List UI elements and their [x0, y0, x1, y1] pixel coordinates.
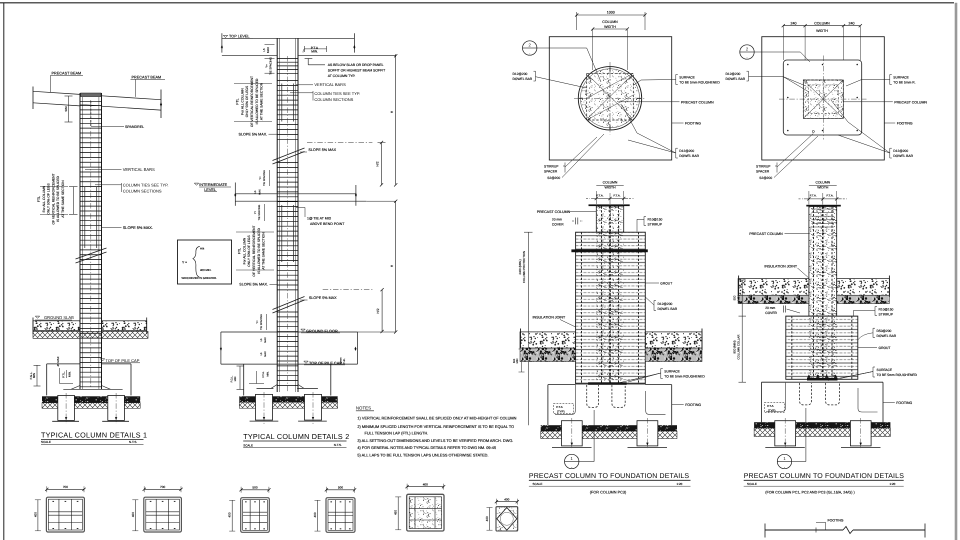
svg-text:ONLY 50% OF LEGS: ONLY 50% OF LEGS	[47, 183, 51, 215]
svg-text:DOWEL BAR: DOWEL BAR	[513, 77, 533, 81]
detail 1: pile cap outline	[47, 363, 80, 365]
detail 2: column centerline	[287, 56, 289, 392]
detail 3 elev: sub-base mesh strip	[541, 431, 677, 438]
svg-text:20 mm: 20 mm	[765, 306, 775, 310]
svg-text:MIN: MIN	[516, 359, 519, 364]
svg-text:20 mm: 20 mm	[552, 218, 562, 222]
svg-text:Y=: Y=	[256, 320, 259, 324]
svg-text:D12@200: D12@200	[679, 149, 694, 153]
detail 1: ground slab speckled band	[33, 321, 80, 331]
svg-text:F.T.A.: F.T.A.	[262, 371, 265, 378]
svg-text:WIDTH: WIDTH	[816, 29, 828, 33]
detail 4 elev: top plate	[806, 205, 841, 207]
border left line	[3, 3, 5, 540]
svg-text:THK.: THK.	[343, 358, 346, 364]
detail 3 plan: dashed column square	[587, 73, 634, 120]
svg-text:SURFACE: SURFACE	[877, 368, 893, 372]
svg-text:COLUMN: COLUMN	[815, 181, 830, 185]
svg-text:TIE SPACING: TIE SPACING	[263, 170, 266, 186]
svg-text:PRECAST COLUMN: PRECAST COLUMN	[537, 210, 571, 214]
detail 4 elev: pedestal center stipple	[809, 316, 837, 379]
svg-text:Y=: Y=	[259, 176, 262, 180]
svg-text:SLOPE 5% MAX: SLOPE 5% MAX	[308, 148, 336, 152]
detail 3 elev: pedestal bottom line	[576, 383, 646, 385]
svg-text:FTL: FTL	[37, 196, 41, 202]
svg-text:COLUMN SECTIONS: COLUMN SECTIONS	[123, 188, 162, 193]
svg-text:R10@150: R10@150	[879, 308, 894, 312]
svg-text:1:20: 1:20	[677, 482, 683, 486]
detail 2: mid-height centerline dash	[307, 142, 372, 144]
svg-text:N.T.S.: N.T.S.	[129, 440, 137, 444]
detail 3 elev: dowel hook U pair left	[587, 385, 599, 407]
svg-text:MAX: MAX	[266, 47, 270, 53]
detail 4 elev: pedestal with dowel bars	[786, 316, 858, 379]
detail 1: beam right end line with arrow	[160, 90, 162, 119]
detail 4 plan: inner dashed square	[808, 85, 838, 113]
detail 2: splice bars upper	[281, 84, 283, 122]
svg-text:TIE SPACING: TIE SPACING	[260, 314, 263, 330]
section 6 dim top 400	[496, 501, 517, 503]
svg-text:SCALE: SCALE	[747, 482, 757, 486]
column section at x=46.4	[46, 497, 84, 532]
detail 3 elev: rubble band left	[520, 348, 576, 361]
svg-text:400: 400	[485, 516, 489, 521]
svg-text:D12@200: D12@200	[893, 149, 908, 153]
svg-text:S2@200: S2@200	[547, 176, 560, 180]
detail 3 elev: footing outline	[548, 384, 576, 386]
detail 1: pile cap top level label	[100, 359, 104, 361]
svg-text:FTL: FTL	[238, 248, 242, 254]
section dim left 400	[231, 500, 233, 531]
svg-text:STIRRUP: STIRRUP	[648, 223, 663, 227]
svg-text:(FOR COLUMN PC3): (FOR COLUMN PC3)	[590, 491, 627, 495]
svg-text:S2@200: S2@200	[759, 176, 772, 180]
detail 4 elev: pedestal extra dashed bars	[791, 316, 793, 379]
svg-text:MIN.: MIN.	[68, 371, 72, 377]
detail 2: leader drop panel note	[305, 58, 313, 60]
svg-text:SURFACE: SURFACE	[679, 76, 695, 80]
svg-text:IS ALLOWED TO BE SPLICED: IS ALLOWED TO BE SPLICED	[255, 78, 259, 124]
svg-text:TO BE 5mm ROUGHENED: TO BE 5mm ROUGHENED	[664, 374, 705, 378]
detail 1: splice bars	[84, 187, 86, 249]
detail 4 plan: dims 240 column width 240	[783, 25, 860, 27]
svg-text:TOP OF PILE CAP: TOP OF PILE CAP	[106, 358, 140, 363]
detail 3 elev: dowel hook U pair right	[612, 385, 625, 407]
svg-text:GROUT: GROUT	[660, 282, 672, 286]
svg-text:SLOPE 5% MAX.: SLOPE 5% MAX.	[123, 225, 153, 230]
detail 3 elev: roughened dark band	[588, 382, 627, 385]
svg-text:3) ALL SETTING-OUT DIMENSIONS: 3) ALL SETTING-OUT DIMENSIONS AND LEVELS…	[357, 439, 513, 443]
detail 2: column rungs	[277, 58, 298, 60]
detail 2: lean concrete black strip	[239, 396, 337, 402]
svg-text:SLOPE 5% MAX.: SLOPE 5% MAX.	[239, 283, 268, 287]
section dim top 500	[326, 489, 354, 491]
svg-text:NOTES: NOTES	[356, 406, 371, 411]
detail 3 plan: callout bubble 2	[523, 41, 537, 55]
svg-text:OF VERTICAL REINFORCEMENT: OF VERTICAL REINFORCEMENT	[252, 225, 256, 276]
svg-text:SIM: SIM	[64, 106, 68, 112]
detail 4 elev: footing sides	[761, 382, 763, 422]
detail 3 elev: column dashed bars upper	[601, 207, 603, 233]
detail 4 elev: footing inner edges	[766, 383, 786, 412]
column section 6 with diamond chamfer	[496, 507, 518, 531]
svg-text:INTERMEDIATE: INTERMEDIATE	[199, 183, 227, 187]
detail 3 plan: footing outer square	[549, 37, 671, 160]
detail 2: column foot flare	[257, 387, 274, 389]
detail 1: precast beam right segment	[102, 96, 162, 100]
section dim left 400	[134, 500, 136, 531]
page right edge shadow	[955, 3, 958, 540]
detail 4 elev: rubble band right	[837, 295, 890, 303]
detail 2: slab soffit line	[222, 54, 277, 56]
detail 2: break marks upper	[273, 148, 305, 161]
svg-text:AS BELOW SLAB OR DROP PANEL: AS BELOW SLAB OR DROP PANEL	[328, 63, 384, 67]
detail 1: lean concrete black strip	[42, 396, 140, 403]
svg-text:F.T.A.: F.T.A.	[614, 193, 621, 197]
svg-text:FULL TENSION LAP (FTL) LENGTH.: FULL TENSION LAP (FTL) LENGTH.	[365, 432, 429, 436]
detail 2: pile left	[256, 394, 273, 420]
detail 1: hardcore mesh band	[33, 331, 148, 338]
svg-text:1:20: 1:20	[890, 482, 896, 486]
detail 4 plan: corner rebar dots	[787, 64, 789, 66]
svg-text:For ALL COLUMN: For ALL COLUMN	[42, 185, 46, 212]
svg-text:MAX: MAX	[258, 189, 261, 195]
detail 4 elev: sub-base mesh strip	[754, 428, 890, 436]
svg-text:450: 450	[394, 510, 398, 515]
detail 4 elev: rubble band left	[738, 295, 809, 303]
svg-text:SCALE: SCALE	[41, 440, 51, 444]
svg-text:STIRRUP: STIRRUP	[879, 313, 894, 317]
detail 2: pile cap sides	[243, 364, 245, 395]
detail 3 elev: callout bubble 1	[565, 454, 579, 468]
svg-text:400: 400	[423, 482, 428, 486]
svg-text:Y=: Y=	[254, 210, 257, 214]
detail 4 plan: footing outer square	[762, 37, 885, 160]
detail 3 elev: precast column shaft	[596, 206, 623, 232]
section 5 dim left 450	[397, 497, 399, 530]
svg-text:TOP LEVEL: TOP LEVEL	[229, 34, 250, 38]
detail 4 elev: column dashed bars	[813, 207, 815, 380]
svg-text:SCALE: SCALE	[243, 444, 253, 448]
detail 4 elev: ground slab speckle left	[738, 279, 809, 296]
svg-text:MIN: MIN	[736, 295, 740, 300]
detail 3 elev: pedestal dashed bars	[601, 232, 603, 384]
detail 4 elev: column top rungs	[812, 208, 835, 210]
detail 2: intermediate level line	[234, 183, 236, 206]
detail 1: column seat dark bar	[81, 93, 101, 97]
svg-text:D50@200: D50@200	[877, 329, 892, 333]
detail 2: H dim lower	[395, 201, 397, 332]
footing partial plan top line	[765, 529, 843, 531]
detail 2: H dim upper	[395, 56, 397, 185]
detail 1: beam left end tick	[32, 87, 34, 110]
svg-text:INSULATION JOINT: INSULATION JOINT	[764, 264, 797, 268]
section dim top 700	[144, 488, 181, 490]
svg-text:INSULATION JOINT: INSULATION JOINT	[533, 316, 566, 320]
detail 3 plan: column width dimension	[593, 28, 628, 30]
svg-text:400: 400	[33, 512, 37, 517]
svg-text:FTL: FTL	[236, 98, 240, 104]
svg-text:F.T.A.: F.T.A.	[810, 193, 817, 197]
detail 2: top of pile cap level	[221, 363, 358, 365]
detail 3 elev: top plate	[589, 204, 630, 206]
svg-text:AT THE SAME SECTION: AT THE SAME SECTION	[260, 82, 264, 120]
svg-text:240: 240	[849, 22, 855, 26]
detail 3 elev: insulation joint thick band	[571, 249, 647, 252]
detail 3 elev: lean concrete strip	[541, 425, 677, 431]
svg-text:500: 500	[338, 485, 343, 489]
svg-text:AT THE SAME SECTION: AT THE SAME SECTION	[61, 180, 65, 218]
svg-text:1@ TIE AT MID: 1@ TIE AT MID	[307, 217, 332, 221]
svg-text:1000: 1000	[607, 11, 615, 15]
svg-text:SURFACE: SURFACE	[893, 76, 909, 80]
svg-text:MAX: MAX	[264, 351, 267, 357]
svg-text:400: 400	[313, 512, 317, 517]
svg-text:SOFFIT OR HIGHEST BEAM SOFFIT: SOFFIT OR HIGHEST BEAM SOFFIT	[328, 68, 386, 72]
svg-text:FOOTING: FOOTING	[828, 519, 844, 523]
svg-text:TYPICAL COLUMN DETAILS 1: TYPICAL COLUMN DETAILS 1	[41, 431, 147, 440]
svg-text:GROUT: GROUT	[879, 346, 891, 350]
svg-text:R10@150: R10@150	[648, 218, 663, 222]
svg-text:WHICHEVER IS GREATER.: WHICHEVER IS GREATER.	[182, 276, 218, 280]
detail 4 plan: diagonals	[803, 80, 843, 118]
svg-text:TO BE 5mm R.: TO BE 5mm R.	[893, 81, 915, 85]
svg-text:GROUND FLOOR: GROUND FLOOR	[306, 328, 338, 333]
detail 3 elev: pile right	[637, 421, 658, 446]
svg-text:PRECAST COLUMN: PRECAST COLUMN	[681, 100, 714, 104]
svg-text:(TYP): (TYP)	[768, 408, 776, 412]
detail 3 elev: pedestal with dowel bars	[576, 232, 646, 384]
svg-text:FOOTING: FOOTING	[897, 122, 913, 126]
svg-text:PRECAST BEAM: PRECAST BEAM	[52, 72, 82, 76]
svg-text:SPACER: SPACER	[756, 169, 770, 173]
detail 1: precast beam left segment	[33, 91, 80, 94]
detail 4 elev: callout bubble 1	[777, 454, 791, 468]
detail 1: pile left	[58, 395, 75, 420]
detail 1: beam soffit line through column	[80, 104, 102, 106]
section dim top 700	[47, 488, 84, 490]
detail 1: column outline	[79, 93, 81, 389]
detail 2: FGL dim	[239, 366, 241, 389]
svg-text:SLOPE 5% MAX.: SLOPE 5% MAX.	[239, 133, 268, 137]
svg-text:Y =: Y =	[182, 261, 187, 265]
column section at x=143.8	[144, 497, 182, 532]
detail 3 elev: ground slab speckle right	[645, 332, 702, 348]
svg-text:(FOR COLUMN PC1, PC2 AND PC3 (: (FOR COLUMN PC1, PC2 AND PC3 (GL.16/A, 2…	[765, 491, 855, 495]
svg-text:ONLY 50% OF LEGS: ONLY 50% OF LEGS	[247, 235, 251, 267]
svg-text:AT THE SAME SECTION: AT THE SAME SECTION	[262, 232, 266, 270]
svg-text:D12@200: D12@200	[726, 72, 741, 76]
section dim top 500	[241, 489, 269, 491]
detail 2: H/2 dim upper	[381, 143, 383, 185]
svg-text:COLUMN TIES SEE TYP.: COLUMN TIES SEE TYP.	[123, 182, 169, 187]
svg-text:MIN.: MIN.	[311, 50, 318, 54]
detail 1: pile right	[108, 395, 125, 420]
svg-text:H/4: H/4	[200, 246, 205, 250]
svg-text:DOWEL BAR: DOWEL BAR	[893, 154, 913, 158]
svg-text:TIE SPACING: TIE SPACING	[268, 57, 272, 75]
border top line	[0, 2, 954, 4]
svg-text:COLUMN: COLUMN	[814, 22, 830, 26]
detail 3 plan: rebar tick marks	[637, 97, 641, 99]
detail 4 elev: ground slab speckle right	[837, 279, 890, 296]
detail 3 plan: stipple inside circle	[581, 69, 640, 128]
column section at x=240.7	[241, 498, 270, 533]
svg-text:TYPICAL COLUMN DETAILS 2: TYPICAL COLUMN DETAILS 2	[243, 432, 349, 441]
svg-text:COLUMN: COLUMN	[602, 20, 618, 24]
svg-text:COLUMN PROTECTION: COLUMN PROTECTION	[522, 251, 526, 283]
svg-text:FOOTING: FOOTING	[685, 403, 701, 407]
detail 3 elev: footing inner edges	[555, 385, 575, 414]
svg-text:PRECAST COLUMN: PRECAST COLUMN	[749, 232, 783, 236]
detail 2: top level line	[222, 37, 355, 39]
svg-text:N.T.S.: N.T.S.	[334, 443, 342, 447]
svg-text:1) VERTICAL REINFORCEMENT SHAL: 1) VERTICAL REINFORCEMENT SHALL BE SPLIC…	[357, 416, 516, 420]
detail 4 elev: left dim 500 min	[741, 280, 743, 316]
detail 1: sub-base mesh strip	[42, 403, 140, 409]
detail 2: column outline	[276, 38, 278, 392]
section dim left 400	[37, 500, 39, 531]
detail 4 elev: dowel hook U pair right	[826, 383, 840, 405]
svg-text:500: 500	[252, 485, 257, 489]
detail 2: pile right	[305, 394, 322, 420]
detail 3 plan: circle column	[578, 67, 641, 130]
detail 4 plan: column stipple square	[803, 80, 843, 118]
detail 2: lower mid centerline	[323, 289, 373, 291]
svg-text:DOWEL BAR: DOWEL BAR	[679, 154, 699, 158]
svg-text:STIRRUP: STIRRUP	[544, 164, 559, 168]
detail 4 elev: pedestal bottom footing top line	[762, 381, 884, 383]
detail 4 elev: roughened dark band and anchors	[807, 378, 838, 381]
detail 2: intermediate lower line	[235, 200, 366, 202]
svg-text:P.T.L.: P.T.L.	[62, 371, 66, 378]
detail 3 elev: ground slab speckle left	[520, 332, 576, 348]
svg-text:COVER: COVER	[552, 223, 564, 227]
svg-text:D12@200: D12@200	[513, 72, 528, 76]
detail 4 elev: lean concrete strip	[754, 422, 890, 428]
svg-text:IS ALLOWED TO BE SPLICED: IS ALLOWED TO BE SPLICED	[257, 228, 261, 274]
detail 2: break marks lower	[273, 297, 305, 310]
svg-text:STIRRUP: STIRRUP	[756, 164, 771, 168]
svg-text:VERTICAL BARS: VERTICAL BARS	[314, 82, 346, 87]
detail 1: FGL dimension	[36, 365, 38, 386]
svg-text:SLOPE 5% MAX: SLOPE 5% MAX	[309, 296, 337, 300]
svg-text:SPANDREL: SPANDREL	[125, 125, 144, 129]
svg-text:PRECAST COLUMN TO FOUNDATION D: PRECAST COLUMN TO FOUNDATION DETAILS	[529, 473, 690, 480]
svg-text:400 MIN.: 400 MIN.	[200, 268, 212, 272]
detail 1: column centerline	[90, 100, 92, 388]
svg-text:D12@200: D12@200	[658, 302, 673, 306]
svg-text:COVER: COVER	[765, 311, 777, 315]
svg-text:COLUMN COLLAR: COLUMN COLLAR	[736, 335, 740, 360]
svg-text:FOOTING: FOOTING	[896, 401, 912, 405]
svg-text:700: 700	[63, 485, 68, 489]
svg-text:DOWEL BAR: DOWEL BAR	[726, 77, 746, 81]
svg-text:TO BE 5mm ROUGHENED: TO BE 5mm ROUGHENED	[679, 81, 720, 85]
svg-text:GROUND SLAB: GROUND SLAB	[44, 315, 74, 320]
svg-text:AT COLUMN TYP.: AT COLUMN TYP.	[328, 74, 356, 78]
svg-text:400: 400	[131, 512, 135, 517]
section 5 dim top 400	[407, 486, 444, 488]
detail 3 plan: centerlines	[574, 97, 646, 99]
detail 3 elev: FTA typ dashed box	[554, 404, 574, 414]
detail 4 elev: FTA typ dashed box	[764, 403, 784, 413]
svg-text:TIE SPACING: TIE SPACING	[258, 205, 261, 221]
detail 4 elev: pile right	[850, 421, 871, 446]
detail 1: spandrel dashed bar	[90, 101, 92, 126]
detail 2: ground floor level	[221, 331, 358, 333]
column section at x=326.0	[326, 498, 355, 533]
svg-text:2) MINIMUM SPLICED LENGTH FOR: 2) MINIMUM SPLICED LENGTH FOR VERTICAL R…	[357, 425, 514, 429]
detail 3 plan: diagonals	[588, 75, 632, 118]
section dim left 400	[317, 500, 319, 531]
detail 2: top level end ticks	[221, 33, 223, 52]
detail 4 plan: footing edge rounded square	[783, 60, 861, 135]
svg-text:COLUMN SECTIONS: COLUMN SECTIONS	[314, 97, 353, 102]
svg-text:COLUMN TIES SEE TYP.: COLUMN TIES SEE TYP.	[314, 91, 360, 96]
detail 4 plan: centerlines	[779, 98, 867, 100]
detail 4 elev: pile left	[775, 421, 796, 446]
svg-text:240: 240	[791, 22, 797, 26]
detail 4 elev: precast column shaft	[809, 207, 837, 317]
svg-text:PRECAST COLUMN: PRECAST COLUMN	[894, 100, 927, 104]
svg-text:PRECAST COLUMN TO FOUNDATION D: PRECAST COLUMN TO FOUNDATION DETAILS	[744, 473, 905, 480]
svg-text:For ALL COLUMN: For ALL COLUMN	[242, 237, 246, 264]
detail 4 elev: dowel hook U pair left	[800, 383, 812, 405]
detail 4 plan: callout bubble 2	[740, 45, 754, 59]
svg-text:F.G.L.: F.G.L.	[230, 375, 233, 382]
svg-text:5) ALL LAPS TO BE FULL TENSION: 5) ALL LAPS TO BE FULL TENSION LAPS UNLE…	[357, 453, 488, 457]
svg-text:WIDTH: WIDTH	[604, 25, 616, 29]
svg-text:4) FOR GENERAL NOTES AND TYPIC: 4) FOR GENERAL NOTES AND TYPICAL DETAILS…	[357, 446, 496, 450]
detail 3 elev: pile left	[562, 421, 583, 446]
svg-text:WIDTH: WIDTH	[604, 186, 616, 190]
detail 1: ground slab level label	[35, 316, 39, 318]
detail 1: column foot flare	[63, 388, 122, 390]
svg-text:IS ALLOWED TO BE SPLICED: IS ALLOWED TO BE SPLICED	[56, 176, 60, 222]
svg-text:OF VERTICAL REINFORCEMENT: OF VERTICAL REINFORCEMENT	[51, 173, 55, 224]
detail 3 elev: rubble band right	[645, 348, 702, 361]
svg-text:MIN: MIN	[32, 373, 36, 378]
svg-text:400: 400	[228, 512, 232, 517]
svg-text:MAX: MAX	[264, 337, 267, 343]
svg-text:WIDTH: WIDTH	[817, 186, 829, 190]
svg-text:PRECAST BEAM: PRECAST BEAM	[132, 76, 162, 80]
svg-text:SURFACE: SURFACE	[664, 370, 680, 374]
detail 2: splice bars lower	[281, 205, 283, 262]
svg-text:700: 700	[160, 485, 165, 489]
detail 3 plan: 1000 dimension	[577, 14, 645, 16]
legend box Y = H/4 or 400 min	[178, 240, 232, 284]
svg-text:For ALL COLUMN: For ALL COLUMN	[240, 88, 244, 115]
section 6 dim left 400	[489, 508, 491, 531]
svg-text:45 MAX: 45 MAX	[56, 356, 60, 366]
detail 2: sub-base mesh strip	[239, 402, 337, 408]
detail 4 elev: collar dim 800	[741, 316, 743, 382]
svg-text:COLUMN: COLUMN	[603, 181, 618, 185]
svg-text:ONLY 50% OF LEGS: ONLY 50% OF LEGS	[245, 85, 249, 117]
detail 3 elev: pedestal center stipple column	[596, 232, 623, 384]
svg-text:F.T.A.: F.T.A.	[827, 193, 834, 197]
svg-text:SPACER: SPACER	[544, 169, 558, 173]
svg-text:VERTICAL BARS: VERTICAL BARS	[123, 167, 155, 172]
svg-text:MIN: MIN	[234, 377, 237, 382]
svg-text:FOOTING: FOOTING	[685, 122, 701, 126]
detail 2: H/2 dim lower	[381, 290, 383, 332]
footing partial plan end ticks	[764, 524, 766, 538]
svg-text:H/2: H/2	[376, 308, 380, 313]
svg-text:DOWEL BAR: DOWEL BAR	[658, 307, 678, 311]
